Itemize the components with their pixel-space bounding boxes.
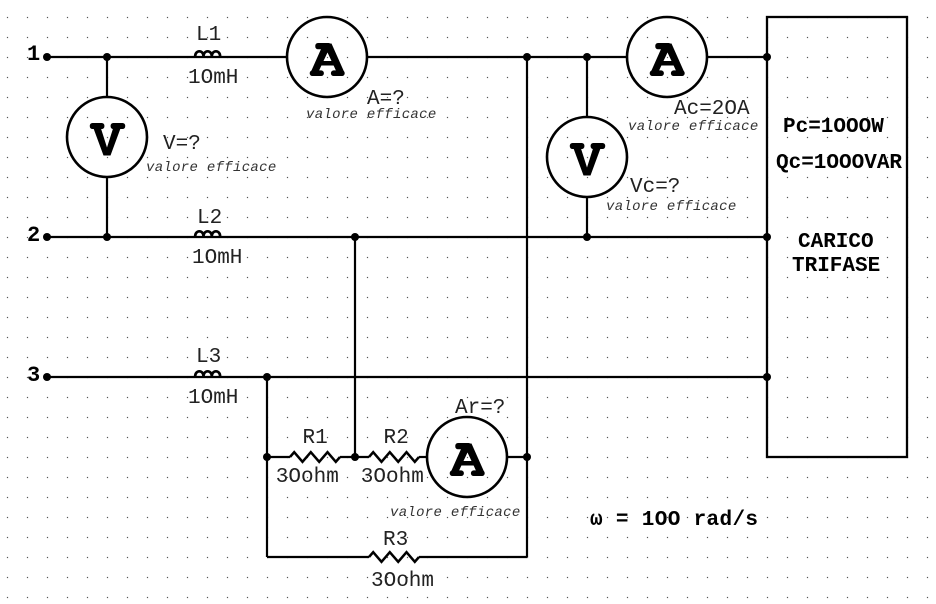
voltmeter U1 circle bbox=[67, 97, 147, 177]
svg-text:1: 1 bbox=[27, 42, 40, 67]
svg-text:L3: L3 bbox=[196, 346, 221, 369]
svg-text:TRIFASE: TRIFASE bbox=[792, 255, 880, 278]
ammeter U2 circle bbox=[287, 17, 367, 97]
svg-text:L1: L1 bbox=[196, 24, 221, 47]
ammeter U2 letter bbox=[310, 43, 345, 76]
svg-text:Ac=2OA: Ac=2OA bbox=[674, 98, 750, 121]
svg-text:valore efficace: valore efficace bbox=[306, 107, 437, 123]
wire Ar-x527 lead bbox=[507, 456, 527, 458]
svg-text:Ar=?: Ar=? bbox=[455, 397, 505, 420]
svg-text:1OmH: 1OmH bbox=[188, 387, 238, 410]
svg-text:3: 3 bbox=[27, 363, 40, 388]
svg-text:1OmH: 1OmH bbox=[188, 67, 238, 90]
junction line1-x527 bbox=[523, 53, 531, 61]
wire vertical x355 bbox=[354, 237, 356, 457]
wire V1 drop lower bbox=[106, 177, 108, 237]
svg-text:valore efficace: valore efficace bbox=[390, 505, 521, 521]
inductor L2 bbox=[195, 231, 220, 237]
junction line2-load bbox=[763, 233, 771, 241]
svg-text:L2: L2 bbox=[197, 207, 222, 230]
ammeter U5 circle bbox=[427, 417, 507, 497]
resistor R1 bbox=[290, 452, 340, 462]
wire line3 bbox=[47, 376, 767, 378]
svg-text:3Oohm: 3Oohm bbox=[276, 466, 339, 489]
ammeter U3 circle bbox=[627, 17, 707, 97]
svg-text:ω = 1OO rad/s: ω = 1OO rad/s bbox=[590, 509, 758, 532]
wire line1 mid segment bbox=[367, 56, 627, 58]
svg-text:R1: R1 bbox=[303, 427, 328, 450]
terminal dot node 3 bbox=[43, 373, 51, 381]
ammeter U5 letter bbox=[450, 443, 485, 476]
svg-text:3Oohm: 3Oohm bbox=[371, 570, 434, 593]
svg-text:Vc=?: Vc=? bbox=[630, 176, 680, 199]
terminal dot node 1 bbox=[43, 53, 51, 61]
wire R1 lead left bbox=[267, 456, 290, 458]
terminal dot node 2 bbox=[43, 233, 51, 241]
svg-text:V=?: V=? bbox=[163, 133, 201, 156]
wire line1 left segment bbox=[47, 56, 287, 58]
junction line1-V1 bbox=[103, 53, 111, 61]
svg-text:Pc=1OOOW: Pc=1OOOW bbox=[783, 116, 884, 139]
svg-text:R2: R2 bbox=[384, 427, 409, 450]
svg-text:CARICO: CARICO bbox=[798, 231, 874, 254]
junction line1-Vc bbox=[583, 53, 591, 61]
svg-text:valore efficace: valore efficace bbox=[606, 199, 737, 215]
svg-text:valore efficace: valore efficace bbox=[628, 119, 759, 135]
svg-text:3Oohm: 3Oohm bbox=[361, 466, 424, 489]
voltmeter U4 circle bbox=[547, 117, 627, 197]
junction line3-load bbox=[763, 373, 771, 381]
wire bottom row left bbox=[267, 556, 369, 558]
wire vertical x527 bbox=[526, 57, 528, 557]
voltmeter U4 letter bbox=[570, 143, 605, 176]
inductor L3 bbox=[195, 371, 220, 377]
junction line2-Vc bbox=[583, 233, 591, 241]
load box CARICO TRIFASE bbox=[767, 17, 907, 457]
svg-text:valore efficace: valore efficace bbox=[146, 160, 277, 176]
junction line3-x267 bbox=[263, 373, 271, 381]
ammeter U3 letter bbox=[650, 43, 685, 76]
svg-text:1OmH: 1OmH bbox=[192, 247, 242, 270]
junction x267-R1 bbox=[263, 453, 271, 461]
wire Vc drop upper bbox=[586, 57, 588, 117]
resistor R3 bbox=[369, 552, 419, 562]
junction line2-x355 bbox=[351, 233, 359, 241]
inductor L1 bbox=[195, 51, 220, 57]
wire bottom row right bbox=[419, 556, 527, 558]
resistor R2 bbox=[369, 452, 419, 462]
wire line2 bbox=[47, 236, 767, 238]
junction Ar-x527 bbox=[523, 453, 531, 461]
wire R1-R2 link bbox=[340, 456, 369, 458]
wire vertical x267 bbox=[266, 377, 268, 557]
svg-text:R3: R3 bbox=[383, 529, 408, 552]
wire V1 drop upper bbox=[106, 57, 108, 97]
wire Vc drop lower bbox=[586, 197, 588, 237]
voltmeter U1 letter bbox=[90, 123, 125, 156]
junction line2-V1 bbox=[103, 233, 111, 241]
svg-text:2: 2 bbox=[27, 223, 40, 248]
svg-text:Qc=1OOOVAR: Qc=1OOOVAR bbox=[776, 152, 902, 175]
junction line1-load bbox=[763, 53, 771, 61]
wire R2-Ar lead bbox=[419, 456, 427, 458]
junction R1-R2 bbox=[351, 453, 359, 461]
wire line1 right segment bbox=[707, 56, 767, 58]
